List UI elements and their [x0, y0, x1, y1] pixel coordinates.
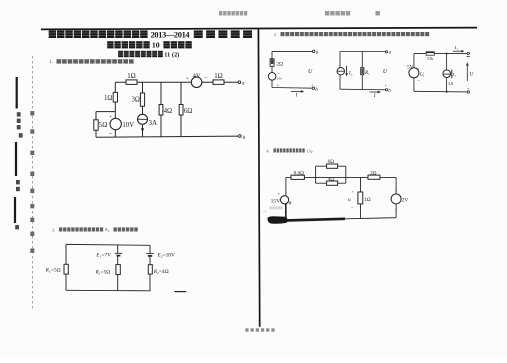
svg-text:I: I	[373, 93, 376, 99]
svg-text:U: U	[383, 69, 388, 75]
svg-text:10: 10	[152, 41, 160, 50]
svg-text:5V: 5V	[407, 66, 414, 71]
svg-text:3A: 3A	[149, 119, 158, 127]
svg-text:+: +	[278, 191, 281, 196]
svg-text:2V: 2V	[402, 197, 409, 203]
svg-text:a: a	[242, 81, 245, 87]
svg-text:4Ω: 4Ω	[328, 177, 335, 183]
svg-text:4Ω: 4Ω	[164, 108, 172, 115]
svg-text:4.: 4.	[266, 148, 269, 153]
svg-text:+: +	[395, 189, 397, 193]
svg-text:2Ω: 2Ω	[370, 171, 377, 177]
svg-text:+: +	[186, 76, 189, 82]
svg-text:b: b	[243, 135, 246, 141]
svg-text:s: s	[455, 75, 456, 78]
svg-text:3.: 3.	[52, 227, 55, 232]
svg-text:6Ω: 6Ω	[328, 159, 335, 165]
svg-text:−: −	[204, 74, 208, 81]
svg-text:51k: 51k	[427, 56, 433, 61]
svg-text:+: +	[311, 83, 313, 87]
svg-text:1Ω: 1Ω	[127, 73, 135, 80]
svg-text:R2=4Ω: R2=4Ω	[153, 269, 169, 275]
svg-text:s: s	[423, 75, 424, 78]
svg-text:2013—2014: 2013—2014	[151, 30, 191, 39]
svg-text:1.: 1.	[49, 60, 53, 65]
svg-text:−: −	[417, 79, 420, 84]
svg-text:0.6Ω: 0.6Ω	[294, 170, 304, 176]
svg-text:U: U	[308, 69, 313, 75]
svg-text:E2=18V: E2=18V	[157, 253, 175, 259]
svg-text:3Ω: 3Ω	[131, 96, 139, 103]
svg-text:+: +	[385, 84, 387, 88]
svg-text:5Ω: 5Ω	[99, 122, 107, 129]
svg-text:3A: 3A	[448, 81, 454, 86]
svg-text:I: I	[295, 93, 298, 99]
svg-text:RL=5Ω: RL=5Ω	[45, 268, 61, 274]
svg-text:+: +	[351, 190, 353, 194]
svg-text:4V: 4V	[193, 72, 201, 79]
svg-text:+: +	[109, 114, 112, 120]
svg-text:2Ω: 2Ω	[276, 61, 283, 67]
svg-text:2.: 2.	[274, 32, 277, 37]
svg-text:R1=5Ω: R1=5Ω	[95, 269, 111, 275]
svg-text:1Ω: 1Ω	[104, 95, 112, 102]
svg-text:−: −	[108, 131, 112, 138]
svg-text:10V: 10V	[122, 122, 134, 129]
svg-text:E1=7V: E1=7V	[95, 252, 111, 258]
svg-text:1Ω: 1Ω	[364, 197, 371, 203]
svg-text:11 (2): 11 (2)	[164, 52, 179, 59]
svg-text:1Ω: 1Ω	[214, 73, 222, 80]
svg-text:15V: 15V	[271, 199, 281, 205]
svg-text:10v: 10v	[277, 77, 282, 81]
svg-text:6Ω: 6Ω	[184, 108, 192, 115]
